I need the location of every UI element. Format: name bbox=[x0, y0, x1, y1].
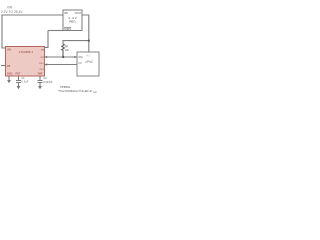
svg-text:PDT: PDT bbox=[16, 72, 21, 75]
svg-text:OUT: OUT bbox=[39, 69, 44, 71]
svg-text:10k: 10k bbox=[65, 49, 70, 52]
svg-text:0.047µF: 0.047µF bbox=[44, 81, 54, 84]
svg-text:µP/µC: µP/µC bbox=[86, 59, 94, 63]
svg-text:VCC: VCC bbox=[86, 56, 91, 58]
svg-text:PB: PB bbox=[7, 65, 11, 68]
svg-text:EN: EN bbox=[41, 50, 44, 52]
svg-text:C2: C2 bbox=[44, 77, 48, 80]
svg-text:RP: RP bbox=[65, 45, 69, 48]
svg-text:LTC2953-1: LTC2953-1 bbox=[19, 50, 34, 54]
svg-text:VIN: VIN bbox=[7, 49, 11, 52]
svg-text:*OPTIONAL: *OPTIONAL bbox=[60, 85, 71, 89]
svg-text:**KILL INTERNALLY PULLED UP: **KILL INTERNALLY PULLED UP bbox=[58, 89, 92, 93]
svg-text:2953 TA01: 2953 TA01 bbox=[93, 91, 97, 94]
svg-text:VOUT: VOUT bbox=[75, 13, 82, 15]
svg-text:VIN: VIN bbox=[7, 5, 13, 9]
svg-text:I/O: I/O bbox=[79, 63, 82, 65]
svg-text:REG: REG bbox=[69, 20, 76, 24]
svg-text:SHDN: SHDN bbox=[64, 29, 71, 31]
svg-text:0.1µF: 0.1µF bbox=[22, 81, 30, 84]
svg-text:VIN: VIN bbox=[64, 13, 68, 15]
svg-text:2.7V TO 26.4V: 2.7V TO 26.4V bbox=[1, 10, 23, 14]
svg-text:TMR: TMR bbox=[37, 72, 42, 75]
svg-text:KILL: KILL bbox=[40, 63, 45, 65]
svg-text:IRQ: IRQ bbox=[79, 57, 83, 59]
svg-text:GND: GND bbox=[7, 72, 13, 75]
